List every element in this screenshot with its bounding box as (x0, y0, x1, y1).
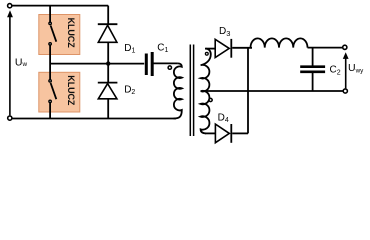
svg-text:KLUCZ: KLUCZ (66, 75, 76, 106)
svg-text:KLUCZ: KLUCZ (66, 18, 76, 49)
wire secondary bottom to D4 (205, 132, 216, 134)
top rail wire (12, 5, 109, 7)
transformer secondary upper winding (201, 49, 211, 92)
output terminal top (343, 45, 347, 49)
wire D3 cathode to junction (232, 47, 252, 49)
KLUCZ box S1 (39, 15, 80, 55)
transformer primary winding (174, 63, 182, 118)
diode D3 (215, 39, 231, 58)
switch S2 (49, 80, 56, 103)
primary polarity dot (168, 66, 171, 69)
wire top rail corner down to D1 (107, 6, 109, 25)
middle rail wire (50, 63, 144, 65)
diode D1 (98, 24, 118, 63)
voltage arrow Uw (7, 10, 13, 115)
junction diode mid (106, 61, 110, 65)
wire switch branch S1 (49, 6, 51, 22)
center tap wire (202, 90, 343, 92)
wire S2 bottom to bottom rail (49, 103, 51, 119)
capacitor C1 (146, 52, 177, 76)
secondary lower polarity dot (209, 98, 212, 101)
bottom rail wire (12, 118, 176, 120)
wire secondary top to D3 (206, 48, 216, 50)
wire S1 bottom to middle rail and S2 (49, 45, 51, 79)
capacitor C2 (300, 48, 325, 91)
output terminal bottom (343, 89, 347, 93)
diode D4 (215, 124, 248, 143)
input terminal top (8, 4, 12, 8)
wire D3-D4 join vertical (247, 48, 249, 134)
transformer core (190, 45, 193, 137)
switch S1 (49, 22, 56, 45)
inductor L (251, 38, 343, 47)
input terminal bottom (8, 116, 12, 120)
diode D2 (98, 64, 118, 119)
voltage arrow Uwy (343, 52, 349, 88)
transformer secondary lower winding (201, 91, 210, 134)
KLUCZ box S2 (39, 72, 80, 112)
secondary upper polarity dot (205, 52, 208, 55)
